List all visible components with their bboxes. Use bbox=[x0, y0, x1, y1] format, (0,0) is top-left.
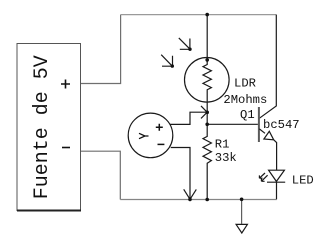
svg-text:33k: 33k bbox=[215, 151, 237, 165]
svg-text:bc547: bc547 bbox=[263, 118, 300, 132]
svg-text:R1: R1 bbox=[215, 138, 230, 152]
svg-text:LDR: LDR bbox=[234, 77, 256, 91]
svg-text:Fuente de 5V: Fuente de 5V bbox=[31, 55, 54, 199]
svg-text:Q1: Q1 bbox=[240, 108, 255, 122]
svg-text:2Mohms: 2Mohms bbox=[223, 93, 267, 107]
svg-text:LED: LED bbox=[292, 174, 314, 188]
